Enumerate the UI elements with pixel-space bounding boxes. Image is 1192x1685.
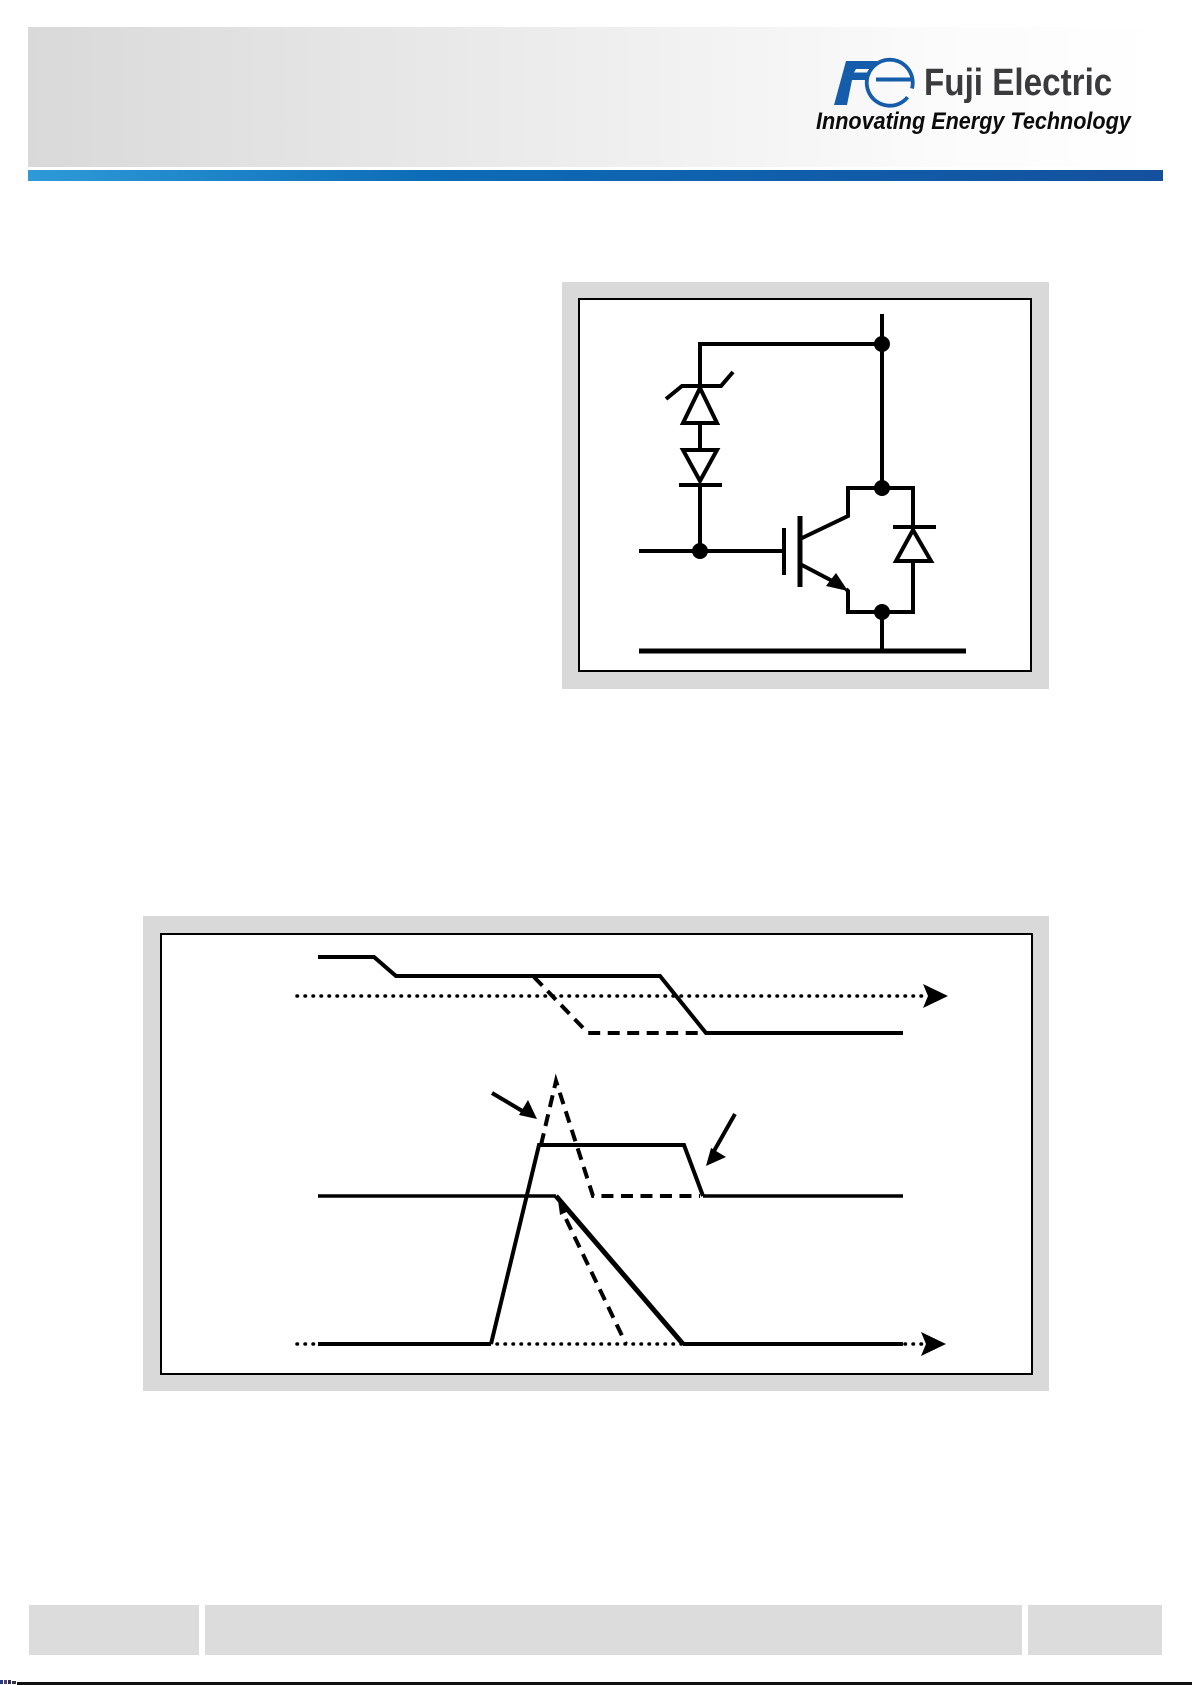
footer gray cell left: [29, 1605, 199, 1655]
wire collector vertical: [880, 314, 884, 488]
figure gray frame: [143, 916, 1049, 1391]
wire between diodes: [698, 423, 702, 450]
diode D2 cathode bar: [893, 525, 936, 529]
footer tiny marks: [0, 1680, 3, 1684]
IGBT Q1 collector lead: [800, 488, 913, 539]
logo wordmark: [924, 64, 1112, 102]
header blue rule: [28, 170, 1163, 181]
arrow pointer right head: [706, 1148, 726, 1166]
Vge dashed waveform: [534, 977, 712, 1033]
Ic zero dotted axis: [297, 1342, 925, 1346]
Vce baseline left: [318, 1194, 556, 1198]
wire top horizontal collector feed: [700, 344, 882, 386]
Ic dashed arrowhead: [558, 1200, 571, 1215]
diode D2 triangle: [896, 530, 931, 561]
wire zener bottom lead to gate: [698, 485, 702, 551]
circuit figure: [562, 282, 1049, 689]
Vge axis arrowhead: [923, 984, 948, 1008]
figure gray frame: [562, 282, 1049, 689]
IGBT Q1 gate bar: [782, 528, 786, 575]
Ic axis arrowhead: [921, 1332, 946, 1356]
wire emitter corner: [846, 561, 913, 612]
diode D1 cathode bar: [679, 483, 722, 487]
wire gate horizontal: [639, 549, 784, 553]
footer bottom rule: [17, 1682, 1192, 1685]
node gate junction: [692, 543, 708, 559]
waveform figure: [143, 916, 1049, 1391]
node collector top junction: [874, 336, 890, 352]
IGBT Q1 body bar: [798, 516, 803, 587]
emitter rail: [639, 649, 966, 654]
zener diode ZD1 cathode bar with wings: [666, 372, 733, 399]
header gray band: [28, 27, 1163, 167]
diode D1 triangle: [683, 450, 717, 481]
node collector junction: [874, 480, 890, 496]
logo e bar: [876, 78, 911, 82]
zener diode ZD1 triangle: [683, 388, 717, 423]
footer gray cell right: [1028, 1605, 1162, 1655]
logo e ring: [867, 60, 913, 106]
node emitter junction: [874, 604, 890, 620]
IGBT Q1 emitter arrowhead: [826, 573, 848, 591]
logo tagline: [816, 110, 1131, 134]
footer gray cell middle: [205, 1605, 1022, 1655]
figure white panel: [161, 934, 1032, 1374]
arrow pointer left head: [519, 1100, 537, 1119]
Ic dashed falling edge: [566, 1219, 626, 1344]
arrow pointer left shaft: [492, 1093, 524, 1112]
Fuji Electric logo mark (Fe): [820, 50, 930, 120]
figure white panel: [579, 299, 1031, 671]
logo F glyph: [834, 61, 877, 105]
Vge zero dotted axis: [297, 994, 928, 998]
Vge solid waveform: [318, 957, 903, 1033]
Vce dashed overshoot waveform: [541, 1081, 700, 1196]
Ic solid baseline right: [683, 1342, 903, 1346]
Ic solid baseline left: [318, 1342, 491, 1346]
arrow pointer right shaft: [714, 1114, 735, 1151]
IGBT Q1 emitter lead: [800, 564, 840, 585]
wire emitter stub: [880, 612, 884, 651]
Vce baseline right: [703, 1194, 903, 1198]
Ic bold falling edge: [556, 1196, 683, 1344]
Vce solid clamped waveform: [491, 1145, 703, 1344]
